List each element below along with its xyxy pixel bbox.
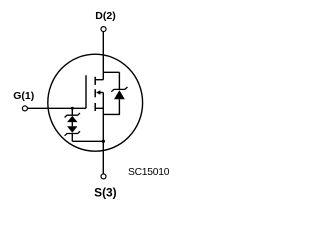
- wire gate-zener bottom: [71, 134, 73, 142]
- transistor envelope: [48, 54, 143, 151]
- junction source node: [102, 140, 105, 143]
- transistor Q1 channel middle segment: [94, 89, 96, 97]
- wire body-diode branch: [103, 99, 119, 114]
- zener gate protection upper cathode bar: [65, 113, 80, 118]
- zener body diode triangle: [114, 90, 125, 99]
- wire gate-zener middle: [71, 122, 73, 126]
- wire source lead: [96, 107, 104, 109]
- svg-text:S(3): S(3): [94, 186, 117, 200]
- wire body-diode cathode lead: [118, 72, 120, 89]
- wire drain terminal to drain rail: [102, 32, 104, 80]
- svg-text:SC15010: SC15010: [128, 167, 170, 178]
- wire gate lead: [27, 107, 86, 109]
- transistor Q1 gate plate: [85, 75, 87, 108]
- wire source vertical: [102, 93, 104, 174]
- wire gate-zener top: [71, 108, 73, 115]
- transistor Q1 channel top segment: [94, 77, 96, 85]
- zener gate protection lower triangle: [67, 126, 77, 133]
- terminal D(2) pin circle: [101, 27, 106, 32]
- svg-text:D(2): D(2): [95, 10, 115, 22]
- svg-text:G(1): G(1): [13, 90, 34, 102]
- transistor Q1 body arrow: [96, 90, 100, 95]
- zener gate protection lower cathode bar: [65, 131, 80, 136]
- zener gate protection upper triangle: [67, 116, 77, 122]
- terminal S(3) pin circle: [101, 174, 106, 179]
- transistor Q1 channel bottom segment: [94, 103, 96, 111]
- wire drain rail: [103, 71, 119, 73]
- wire mosfet drain lead: [95, 79, 103, 81]
- terminal G(1) pin circle: [22, 106, 27, 111]
- wire source rail: [72, 140, 103, 142]
- zener body diode cathode bar: [111, 87, 127, 92]
- wire body lead: [100, 92, 104, 94]
- junction gate-zener node: [71, 107, 74, 110]
